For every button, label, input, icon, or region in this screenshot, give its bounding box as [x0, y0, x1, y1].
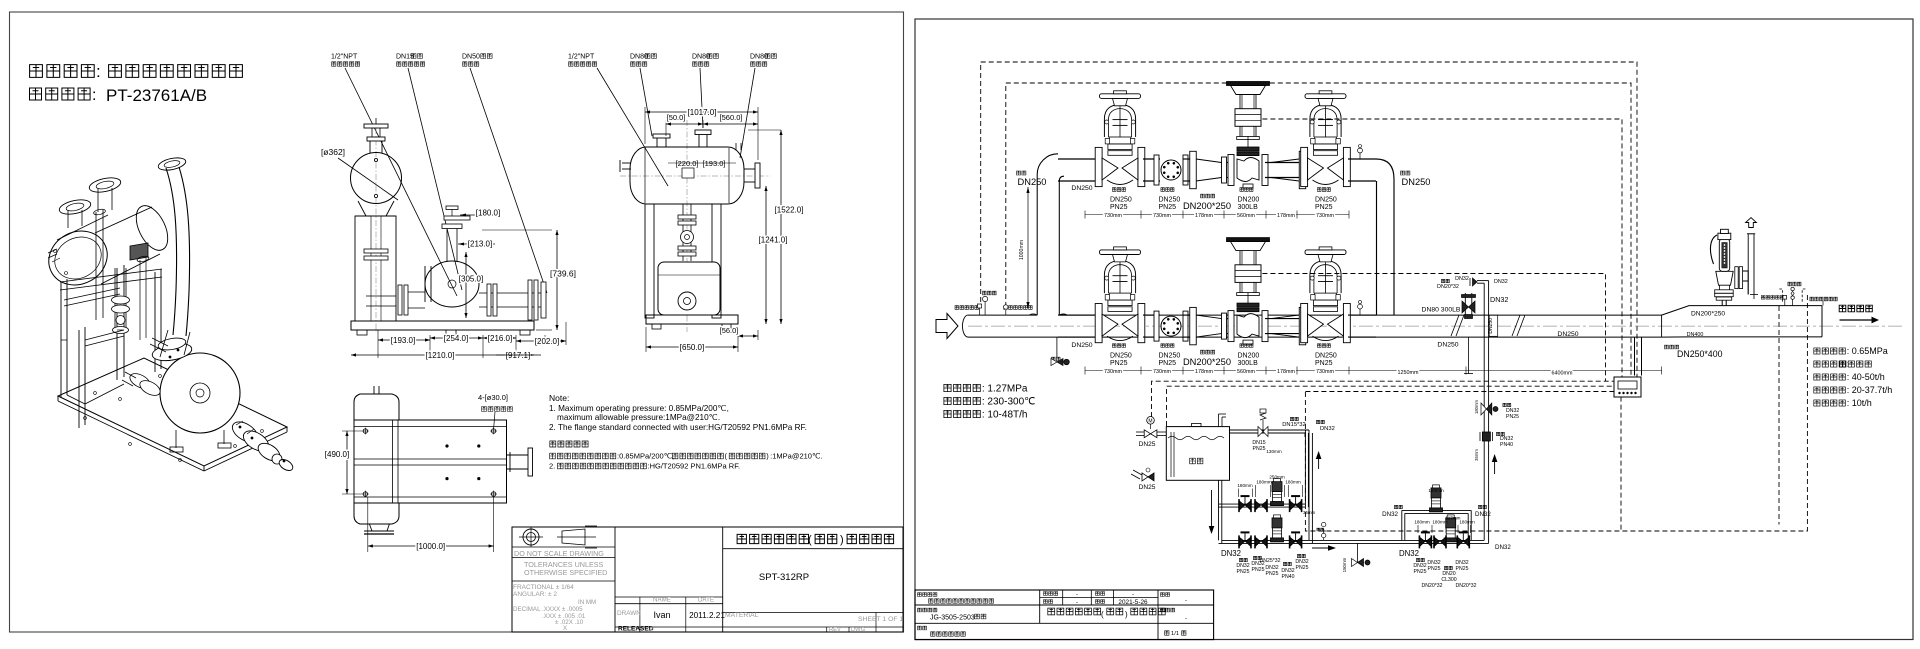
front pump volute [425, 261, 479, 307]
svg-text:560mm: 560mm [1237, 213, 1255, 219]
side dim 56.0 [720, 326, 758, 340]
side vessel right discharge flange [744, 163, 760, 188]
side view centerlines [620, 120, 770, 332]
svg-text:[1000.0]: [1000.0] [416, 542, 445, 551]
svg-text:DN32: DN32 [1320, 426, 1335, 432]
svg-text:X: X [563, 625, 567, 632]
svg-text:150mm: 150mm [1342, 557, 1347, 572]
svg-text:): ) [840, 534, 844, 546]
svg-text:-: - [1185, 616, 1187, 622]
top view bottom nozzle [364, 524, 394, 534]
globe valve G1 [1095, 247, 1145, 343]
svg-text:178mm: 178mm [1277, 213, 1295, 219]
svg-text:DN25: DN25 [1139, 484, 1156, 491]
svg-text:180mm: 180mm [1285, 480, 1300, 485]
svg-text:NAME: NAME [653, 597, 671, 604]
svg-text:PN25: PN25 [1414, 569, 1427, 575]
water tank [1166, 414, 1229, 480]
isometric pump feet [170, 430, 231, 452]
inlet open arrow [936, 314, 958, 339]
svg-text:1/2"NPT: 1/2"NPT [331, 53, 358, 60]
svg-text:RELEASED: RELEASED [618, 626, 654, 633]
svg-text:730mm: 730mm [1153, 369, 1171, 375]
pipe spool G1-check [1143, 314, 1160, 316]
svg-text:DN250: DN250 [1018, 177, 1047, 187]
right riser valve DN32 PN40 [1474, 432, 1513, 461]
svg-text:-: - [1185, 598, 1187, 604]
svg-text:DN250: DN250 [1315, 352, 1337, 359]
svg-text:730mm: 730mm [1104, 213, 1122, 219]
svg-text:178mm: 178mm [1195, 213, 1213, 219]
title block released row [618, 626, 654, 633]
up arrow riser1 [1316, 451, 1322, 469]
svg-text:DN50: DN50 [462, 53, 480, 60]
svg-text:[1241.0]: [1241.0] [759, 236, 788, 245]
instrument stub near elbow [1358, 301, 1363, 316]
expander to DN400 outlet pipe [1662, 306, 1822, 338]
svg-text:PN25: PN25 [1506, 414, 1519, 420]
svg-text:Ivan: Ivan [653, 610, 670, 620]
svg-text:180mm: 180mm [1474, 400, 1479, 414]
front base [351, 321, 534, 335]
svg-text:3: 3 [650, 626, 654, 633]
svg-text:MATERIAL: MATERIAL [725, 612, 759, 619]
svg-text:DN20*32: DN20*32 [1437, 284, 1459, 290]
conduit to controller [1635, 337, 1642, 376]
leader lines from nozzle labels [345, 68, 755, 296]
side dim 1522.0 [748, 130, 803, 324]
front column frame [355, 216, 396, 321]
svg-text:DN250: DN250 [1071, 342, 1092, 349]
G2 labels [1315, 344, 1337, 367]
top view bolt hole label [478, 393, 512, 429]
label DN15*32 corner [1282, 417, 1335, 432]
svg-text:178mm: 178mm [1195, 369, 1213, 375]
globe valve G1 [1095, 91, 1145, 187]
pipe spool check-reducer [1183, 158, 1193, 160]
isometric base plate [58, 358, 287, 471]
svg-text:PN40: PN40 [1500, 442, 1513, 448]
expander back to DN250 [1271, 307, 1306, 344]
svg-text:[1017.0]: [1017.0] [688, 108, 717, 117]
svg-text:Note:: Note: [549, 393, 569, 403]
svg-text:DN32: DN32 [1490, 295, 1508, 304]
svg-text:130mm: 130mm [1266, 449, 1281, 454]
front base dim row 1 [378, 322, 566, 358]
svg-text:1000mm: 1000mm [1019, 240, 1025, 260]
front base dim row 2 [351, 351, 541, 360]
isometric pump discharge train [229, 418, 295, 473]
svg-text:DN200*250: DN200*250 [1183, 357, 1231, 367]
group B labels [1221, 549, 1309, 580]
svg-text:DN32: DN32 [1382, 511, 1398, 518]
side horizontal vessel [630, 147, 744, 204]
label DN80 flange overflow port [750, 53, 776, 66]
svg-text:35mm: 35mm [1474, 449, 1479, 461]
spare loop lower valves [1414, 515, 1474, 549]
svg-text:180mm: 180mm [1428, 488, 1443, 493]
svg-text:DWG: DWG [851, 627, 866, 633]
side legs [645, 204, 721, 318]
svg-text:180mm: 180mm [1459, 520, 1474, 525]
pump group A valves and pump [1237, 475, 1315, 516]
main pipe DN250 lower [963, 315, 1662, 337]
spare loop pump and valve [1382, 485, 1491, 518]
svg-text:DN200: DN200 [1238, 196, 1260, 203]
svg-text:4-[ø30.0]: 4-[ø30.0] [478, 393, 508, 402]
svg-text:1/1: 1/1 [1171, 631, 1179, 637]
isometric flange B with column [88, 175, 122, 212]
side dim 1241.0 [759, 186, 788, 324]
svg-text::HG/T20592 PN1.6MPa RF.: :HG/T20592 PN1.6MPa RF. [648, 462, 741, 471]
svg-text:: 40-50t/h: : 40-50t/h [1847, 372, 1885, 382]
side pump cylinder [658, 262, 720, 315]
svg-text:DN250: DN250 [1437, 342, 1458, 349]
front dim 305.0 [459, 252, 483, 318]
title block drawn by Ivan [653, 610, 725, 620]
svg-text:PN25: PN25 [1159, 360, 1177, 367]
reducer labels [1183, 350, 1231, 367]
front pump top assembly [442, 206, 470, 262]
svg-text:[917.1]: [917.1] [506, 351, 530, 360]
svg-text:DATE: DATE [698, 597, 714, 604]
svg-text:[50.0]: [50.0] [667, 113, 686, 122]
dim chain row [1085, 367, 1349, 375]
svg-text:[213.0]: [213.0] [468, 240, 492, 249]
drain branch with valve [1342, 543, 1370, 572]
svg-text:[650.0]: [650.0] [680, 343, 704, 352]
DN15 relief valve [1252, 409, 1281, 454]
drain under main pipe [1051, 337, 1069, 365]
right title block frame [915, 590, 1214, 640]
svg-text:1250mm: 1250mm [1398, 370, 1419, 376]
control signal lower control valve [1262, 274, 1605, 382]
outlet spec text block [1814, 346, 1892, 408]
top view right discharge nozzle [507, 448, 533, 476]
front dim 739.6 [482, 230, 576, 330]
side valve stack between legs [678, 204, 696, 261]
svg-text:IN MM: IN MM [578, 599, 596, 606]
side dim 1017.0 [645, 107, 758, 160]
safety valve assembly [1710, 229, 1758, 305]
isometric name plate [130, 243, 148, 260]
discharge header [1219, 540, 1489, 543]
dashed drop from controller [1620, 397, 1622, 531]
dashed outlet pressure transmitter drop [1778, 306, 1780, 525]
front pump suction flange left [398, 285, 425, 315]
svg-text:DO NOT SCALE DRAWING: DO NOT SCALE DRAWING [514, 549, 604, 558]
svg-text:CL300: CL300 [1441, 577, 1456, 583]
G1 labels [1110, 188, 1132, 211]
left sheet border [10, 12, 904, 632]
svg-text:[1210.0]: [1210.0] [426, 351, 455, 360]
outlet instruments [1761, 282, 1837, 305]
water tank label [1190, 458, 1203, 464]
svg-text:6400mm: 6400mm [1552, 371, 1573, 377]
riser crossing pipe with break marks [1451, 315, 1525, 337]
svg-text:PN25: PN25 [1252, 567, 1265, 573]
svg-text:DN25*32: DN25*32 [1259, 558, 1280, 564]
svg-text:-: - [1076, 600, 1078, 606]
label DN50 flange main water port [462, 53, 492, 66]
svg-text:JG-3505-2503: JG-3505-2503 [930, 615, 975, 622]
tank drain valve DN25 [1131, 468, 1156, 491]
svg-text:[305.0]: [305.0] [459, 275, 483, 284]
control signal tank level 2 [1167, 386, 1618, 426]
svg-text:-: - [1132, 592, 1134, 598]
svg-text:[254.0]: [254.0] [444, 334, 468, 343]
svg-text:: 1.27MPa: : 1.27MPa [982, 384, 1028, 395]
svg-text:DN250: DN250 [1159, 352, 1181, 359]
svg-text:DN250: DN250 [1557, 331, 1578, 338]
right riser valve DN32 PN25 [1474, 400, 1519, 420]
isometric pump assembly [122, 330, 240, 433]
svg-text:-: - [1076, 592, 1078, 598]
svg-text:[216.0]: [216.0] [488, 334, 512, 343]
vent up arrow [1746, 218, 1757, 228]
instrument on discharge header mid [1317, 522, 1326, 540]
svg-text:DN80 300LB: DN80 300LB [1422, 307, 1461, 314]
pipe spool cv-right small [1265, 162, 1300, 164]
upper right elbow [1376, 159, 1394, 315]
check valve [1154, 155, 1188, 185]
side vessel top nozzles [653, 130, 741, 150]
svg-text:[560.0]: [560.0] [720, 113, 743, 122]
label reducer DN250*400 [1665, 345, 1723, 359]
reducer DN200*250 [1190, 307, 1227, 344]
label 1/2NPT level gauge port (front view) [331, 53, 360, 66]
svg-text:DN32: DN32 [1399, 549, 1419, 558]
side base [646, 315, 738, 329]
svg-text:DN200: DN200 [1238, 352, 1260, 359]
DN15 bypass line from tank [1230, 430, 1313, 543]
front view tank circle [338, 153, 402, 204]
top view dim 1000.0 [368, 497, 494, 552]
svg-text:300LB: 300LB [1238, 204, 1259, 211]
svg-text:300LB: 300LB [1238, 360, 1259, 367]
svg-text:DN200*250: DN200*250 [1183, 201, 1231, 211]
top view dim 490.0 [325, 431, 362, 494]
svg-text:[202.0]: [202.0] [535, 337, 559, 346]
svg-text:PN25: PN25 [1296, 565, 1309, 571]
svg-text:PN25: PN25 [1315, 360, 1333, 367]
svg-text:DECIMAL .XXXX ± .0005: DECIMAL .XXXX ± .0005 [513, 606, 583, 613]
svg-text:M: M [1148, 419, 1152, 425]
svg-text:FRACTIONAL ± 1/64: FRACTIONAL ± 1/64 [513, 584, 574, 591]
svg-text:DN15*32: DN15*32 [1282, 422, 1306, 428]
controller [1614, 377, 1641, 397]
side base dim 650.0 [646, 327, 738, 352]
svg-text:PN25: PN25 [1456, 566, 1469, 572]
G2 labels [1315, 188, 1337, 211]
projection symbols [519, 526, 597, 548]
svg-text:: 10t/h: : 10t/h [1847, 398, 1872, 408]
svg-text:1/2"NPT: 1/2"NPT [568, 53, 595, 60]
dim 1000mm between trains [1019, 187, 1030, 308]
side dims 220 193 on vessel [668, 159, 736, 168]
svg-text:PN25: PN25 [1428, 566, 1441, 572]
top view vessel capsule [354, 386, 399, 524]
svg-text:2021-5-26: 2021-5-26 [1118, 599, 1148, 606]
svg-text:DN32: DN32 [1494, 279, 1508, 285]
svg-text:[193.0]: [193.0] [703, 159, 726, 168]
svg-text:PN25: PN25 [1110, 204, 1128, 211]
svg-text:2. The flange standard connect: 2. The flange standard connected with us… [549, 423, 807, 432]
DN32 riser top corner with valve [1437, 276, 1508, 315]
control signal tank level 1 [1152, 381, 1618, 417]
pipe spool reducer-cv small [1227, 162, 1231, 164]
svg-text:DRAWN: DRAWN [617, 610, 641, 617]
side vessel left small nozzle [620, 160, 631, 172]
front dim 180.0 [460, 209, 500, 218]
svg-text:: 10-48T/h: : 10-48T/h [982, 410, 1028, 421]
check valve labels [1159, 344, 1181, 367]
pipe spool check-reducer [1183, 314, 1193, 316]
svg-text:[193.0]: [193.0] [391, 336, 415, 345]
label DN80 flange vent port [692, 53, 718, 66]
svg-text:PT-23761A/B: PT-23761A/B [106, 86, 207, 105]
pipe to right elbow [1348, 158, 1376, 160]
svg-text:PN25: PN25 [1237, 569, 1250, 575]
riser left elbow to upper train [1029, 154, 1067, 315]
check valve [1154, 311, 1188, 341]
title text equipment name [30, 62, 243, 81]
svg-text:maximum allowable pressure:1MP: maximum allowable pressure:1MPa@210℃. [557, 413, 720, 422]
top view skid frame [354, 420, 507, 503]
isometric pump column under vessel [112, 268, 130, 334]
svg-text:730mm: 730mm [1104, 369, 1122, 375]
svg-text:[ø362]: [ø362] [321, 147, 345, 157]
svg-text:PN40: PN40 [1282, 574, 1295, 580]
front tank top flange stack [364, 118, 388, 153]
spare pump loop rail [1402, 510, 1471, 540]
svg-text:[1522.0]: [1522.0] [775, 206, 804, 215]
svg-text:[220.0]: [220.0] [676, 159, 699, 168]
svg-text:2011.2.21: 2011.2.21 [689, 611, 725, 620]
tank inlet motor valve DN25 [1136, 417, 1166, 449]
svg-text:: 0.65MPa: : 0.65MPa [1847, 346, 1888, 356]
svg-text:730mm: 730mm [1316, 369, 1334, 375]
side dim 50.0 and 560.0 [666, 113, 758, 136]
svg-text:DN32: DN32 [1495, 544, 1511, 551]
svg-text:± .02X .10: ± .02X .10 [555, 619, 584, 626]
svg-text:DN400: DN400 [1687, 332, 1704, 338]
G1 labels [1110, 344, 1132, 367]
right title block texts [918, 592, 1188, 637]
down arrow [1209, 490, 1215, 534]
dashed interlock rect top edge [1305, 391, 1621, 393]
control valve [1227, 238, 1270, 345]
svg-text:PN25: PN25 [1253, 446, 1266, 452]
label DN15 flange power air inlet [396, 53, 425, 66]
blowdown branch DN80 with dark valve [1422, 293, 1476, 319]
svg-text:PN25: PN25 [1110, 360, 1128, 367]
svg-text:REV: REV [829, 627, 841, 633]
globe valve G2 [1301, 91, 1351, 187]
reducer DN200*250 [1190, 151, 1227, 188]
svg-text:DN20*32: DN20*32 [1455, 583, 1476, 589]
isometric frame posts [60, 265, 162, 428]
svg-text:[739.6]: [739.6] [550, 269, 576, 279]
svg-text:(: ( [1101, 610, 1104, 619]
svg-text:180mm: 180mm [1237, 483, 1252, 488]
right riser to main pipe [1484, 337, 1488, 543]
outlet steam label and arrow [1839, 305, 1879, 323]
svg-text:DN200*250: DN200*250 [1691, 311, 1725, 318]
svg-text:DN32: DN32 [1455, 276, 1469, 282]
inlet spec text block [944, 384, 1035, 421]
discharge flow arrow [1312, 545, 1336, 551]
control valve labels [1238, 344, 1260, 367]
front support cone [355, 201, 396, 216]
control valve labels [1238, 188, 1260, 211]
pipe spool cv-right small [1265, 318, 1300, 320]
svg-text:DN250: DN250 [1402, 177, 1431, 187]
svg-text:PN25: PN25 [1159, 204, 1177, 211]
svg-text:DN250: DN250 [1315, 196, 1337, 203]
svg-text:(: ( [808, 534, 812, 546]
svg-text:DN20*32: DN20*32 [1421, 583, 1442, 589]
svg-text:560mm: 560mm [1237, 369, 1255, 375]
svg-text:730mm: 730mm [1316, 213, 1334, 219]
dim chain row [1085, 211, 1349, 219]
svg-text:[180.0]: [180.0] [476, 209, 500, 218]
left title block frame [512, 527, 903, 632]
svg-text:180mm: 180mm [1414, 520, 1429, 525]
svg-text:SHEET 1 OF 1: SHEET 1 OF 1 [858, 616, 903, 623]
svg-text:: 230-300℃: : 230-300℃ [982, 397, 1036, 408]
up arrow right riser [1492, 454, 1498, 474]
technical requirements chinese [549, 441, 822, 471]
svg-text:DN25: DN25 [1139, 441, 1156, 448]
svg-text:ANGULAR: ± 2: ANGULAR: ± 2 [513, 591, 557, 598]
title block company name [737, 534, 894, 546]
front view centerline [375, 128, 377, 332]
pump group B valves and pump [1239, 515, 1302, 549]
pipe spool G1-check [1143, 158, 1160, 160]
svg-text:DN250: DN250 [1110, 196, 1132, 203]
check valve labels [1159, 188, 1181, 211]
svg-text:DN32: DN32 [1221, 549, 1241, 558]
note text block english [549, 393, 807, 432]
svg-text::: : [96, 62, 101, 81]
pipe spool reducer-cv small [1227, 318, 1231, 320]
drain line below pipe [1464, 337, 1473, 373]
svg-text:): ) [1125, 610, 1128, 619]
top view bolt holes [362, 428, 497, 498]
label elbow DN250 left [1017, 171, 1047, 187]
svg-text:[490.0]: [490.0] [325, 450, 349, 459]
svg-text:PN25: PN25 [1315, 204, 1333, 211]
control signal dashed bus outer [981, 62, 1637, 379]
side small equipment box on vessel [682, 168, 694, 178]
svg-text:OTHERWISE SPECIFIED: OTHERWISE SPECIFIED [524, 568, 607, 577]
svg-text:: 20-37.7t/h: : 20-37.7t/h [1847, 385, 1893, 395]
svg-text:SPT-312RP: SPT-312RP [759, 572, 809, 583]
svg-text:DN250*400: DN250*400 [1677, 349, 1723, 359]
lower dim 1250mm and 6400mm [1349, 367, 1662, 377]
svg-text:1. Maximum operating pressure:: 1. Maximum operating pressure: 0.85MPa/2… [549, 404, 729, 413]
instrument stub near elbow [1358, 145, 1363, 160]
label DN80 flange water inlet [630, 53, 656, 66]
label 1/2NPT level gauge port (side view) [568, 53, 597, 66]
svg-text::0.85MPa/200℃,: :0.85MPa/200℃, [617, 452, 674, 461]
svg-text:DN250: DN250 [1488, 318, 1494, 334]
title text equipment tag [30, 86, 208, 105]
isometric flange C and curved pipe [157, 156, 189, 336]
reducer labels [1183, 194, 1231, 211]
svg-text:DN250: DN250 [1071, 185, 1092, 192]
